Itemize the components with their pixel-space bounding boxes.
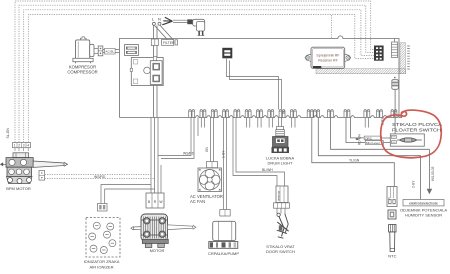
- wire: to floater line 1: [331, 118, 430, 150]
- relay coil block: [150, 56, 162, 84]
- svg-text:WS-05-05: WS-05-05: [431, 166, 435, 181]
- svg-text:COMPRESSOR: COMPRESSOR: [67, 70, 97, 75]
- wire: branch pair: [158, 118, 194, 159]
- pin row right of hatch: [407, 46, 410, 69]
- label ionizer: [84, 259, 120, 269]
- pump connector: [220, 210, 230, 217]
- wire: strip to motor: [15, 148, 28, 151]
- wire: compressor to board: [103, 50, 120, 53]
- wire: N feed down: [156, 25, 158, 39]
- wire: dashed harness line 4 (innermost): [28, 14, 374, 142]
- wire: to mini level bottom: [346, 118, 365, 143]
- svg-text:YL/GN: YL/GN: [349, 159, 360, 163]
- svg-text:Receiver RF: Receiver RF: [318, 58, 337, 62]
- svg-text:AC FAN: AC FAN: [190, 199, 205, 204]
- ionizer unit: [86, 218, 120, 258]
- wire: door switch feed: [233, 118, 285, 189]
- compressor connector: [94, 46, 103, 56]
- wire: dashed harness line 2: [19, 5, 374, 142]
- BPM connector strip: [13, 143, 31, 148]
- wire: mini level to floater: [382, 138, 392, 143]
- motor connector: [146, 193, 164, 208]
- label compressor: [67, 65, 97, 75]
- BPM aux connector: [39, 171, 45, 181]
- wire: to NTC yellow-green: [312, 118, 395, 187]
- connector block J1 on board: [125, 45, 139, 56]
- svg-text:NTC: NTC: [388, 254, 396, 259]
- svg-text:BL: BL: [281, 110, 285, 114]
- motor M1: [141, 214, 168, 248]
- svg-text:WS/RD: WS/RD: [183, 152, 195, 156]
- svg-text:AC-BL: AC-BL: [105, 50, 114, 54]
- RF receiver module U3: [305, 47, 351, 68]
- door switch connector strip: [274, 203, 290, 208]
- ionizer connector: [98, 204, 108, 212]
- compressor motor: [73, 37, 94, 63]
- label bowl light: [266, 155, 295, 165]
- BPM shaft: [33, 161, 67, 167]
- wire: ionizer feed: [101, 185, 155, 204]
- svg-text:4: 4: [27, 144, 29, 148]
- wire: bowl light drop: [279, 118, 282, 127]
- capacitor C1 on right edge: [392, 77, 399, 90]
- NTC sensor: [388, 210, 396, 252]
- AC fan M2: [198, 168, 222, 192]
- red highlight ellipse: [381, 110, 442, 158]
- BPM motor M3: [6, 153, 33, 184]
- thermal fuse connector: [387, 187, 397, 207]
- DIP connector J3: [374, 46, 384, 61]
- antenna coil L1: [392, 39, 398, 58]
- fan connector: [207, 162, 218, 168]
- wire: arrow to electrode: [427, 149, 433, 194]
- wire: diagonal feeds to filter: [155, 26, 173, 40]
- motor shaft left: [131, 226, 141, 230]
- RF module PCB hatched right strip: [400, 43, 406, 74]
- svg-text:WS/RD: WS/RD: [94, 175, 106, 179]
- label floater switch: [392, 122, 442, 133]
- wire: fan feed: [211, 118, 214, 162]
- wire: dashed harness line 3: [24, 10, 374, 143]
- floater switch S2 (reed): [390, 134, 424, 146]
- filter F1: [162, 40, 178, 46]
- wire: mains cable splay: [162, 17, 187, 25]
- svg-text:BPM MOTOR: BPM MOTOR: [6, 186, 31, 191]
- BPM left stub: [1, 163, 6, 166]
- svg-text:GN: GN: [205, 147, 209, 152]
- electrode box: [403, 200, 444, 206]
- svg-text:SL-GN: SL-GN: [6, 128, 10, 139]
- svg-text:Mini Level: Mini Level: [366, 141, 380, 145]
- node N terminal: [158, 17, 161, 26]
- wire: J2 to bowl light path: [227, 59, 282, 110]
- wire: dashed WS/RD pair: [45, 175, 155, 179]
- svg-text:AIR IONIZER: AIR IONIZER: [89, 264, 113, 269]
- pump P1: [209, 221, 238, 248]
- svg-text:termovar: termovar: [276, 191, 280, 201]
- wire: to humidity sensor arrow line: [318, 118, 420, 200]
- motor shaft right: [168, 225, 196, 230]
- wire: connector stubs below board edge: [201, 118, 368, 128]
- bowl light lamp: [272, 127, 290, 154]
- wire: pump feed: [224, 118, 227, 210]
- door switch S1: [277, 208, 289, 238]
- label AC fan: [190, 194, 223, 204]
- node L terminal: [152, 17, 156, 26]
- svg-text:2: 2: [18, 144, 20, 148]
- svg-text:FLOATER SWITCH: FLOATER SWITCH: [392, 128, 441, 133]
- connector J2 on board: [223, 48, 232, 58]
- wire: to mini level top: [351, 118, 365, 138]
- svg-text:MOTOR: MOTOR: [150, 248, 165, 253]
- wire: dashed harness line 1 (outermost): [15, 1, 374, 143]
- svg-text:3: 3: [23, 144, 25, 148]
- svg-text:1: 1: [14, 144, 16, 148]
- svg-text:DRC: DRC: [365, 136, 372, 140]
- label door switch: [266, 244, 295, 254]
- wire: stub 198: [197, 118, 199, 137]
- svg-text:2-GY: 2-GY: [412, 180, 416, 188]
- svg-text:Sprejemnik RF: Sprejemnik RF: [316, 53, 339, 57]
- mini level module: [356, 136, 384, 145]
- svg-text:DOOR SWITCH: DOOR SWITCH: [266, 249, 295, 254]
- label humidity sensor: [400, 208, 447, 218]
- wire: capacitor to floater switch: [394, 89, 396, 134]
- svg-text:HUMIDITY SENSOR: HUMIDITY SENSOR: [405, 213, 442, 218]
- main control board PCB outline: [120, 36, 402, 118]
- svg-text:FILTER: FILTER: [163, 41, 175, 45]
- svg-text:CRPALKA/PUMP: CRPALKA/PUMP: [208, 251, 239, 256]
- svg-text:1-GY: 1-GY: [222, 150, 226, 158]
- svg-text:N: N: [158, 17, 161, 22]
- svg-text:BL/WH: BL/WH: [262, 168, 273, 172]
- svg-text:DRUM LIGHT: DRUM LIGHT: [268, 160, 293, 165]
- wire: L/N into board: [154, 46, 158, 118]
- wire: dashed stub to board edge: [331, 15, 333, 38]
- label AC-BL box: [105, 48, 116, 54]
- connector on board edge below L/N: [151, 39, 158, 46]
- relay K1: [130, 58, 163, 86]
- svg-text:elektroda/electrode: elektroda/electrode: [409, 201, 438, 205]
- RF module PCB hatched bottom strip: [316, 69, 406, 74]
- door switch connector: [276, 186, 288, 203]
- svg-text:STIKALO PLOVCA: STIKALO PLOVCA: [392, 122, 442, 127]
- power plug (europlug): [187, 19, 204, 35]
- wire: L feed down: [153, 25, 155, 39]
- wire: motor feed verticals: [151, 118, 161, 194]
